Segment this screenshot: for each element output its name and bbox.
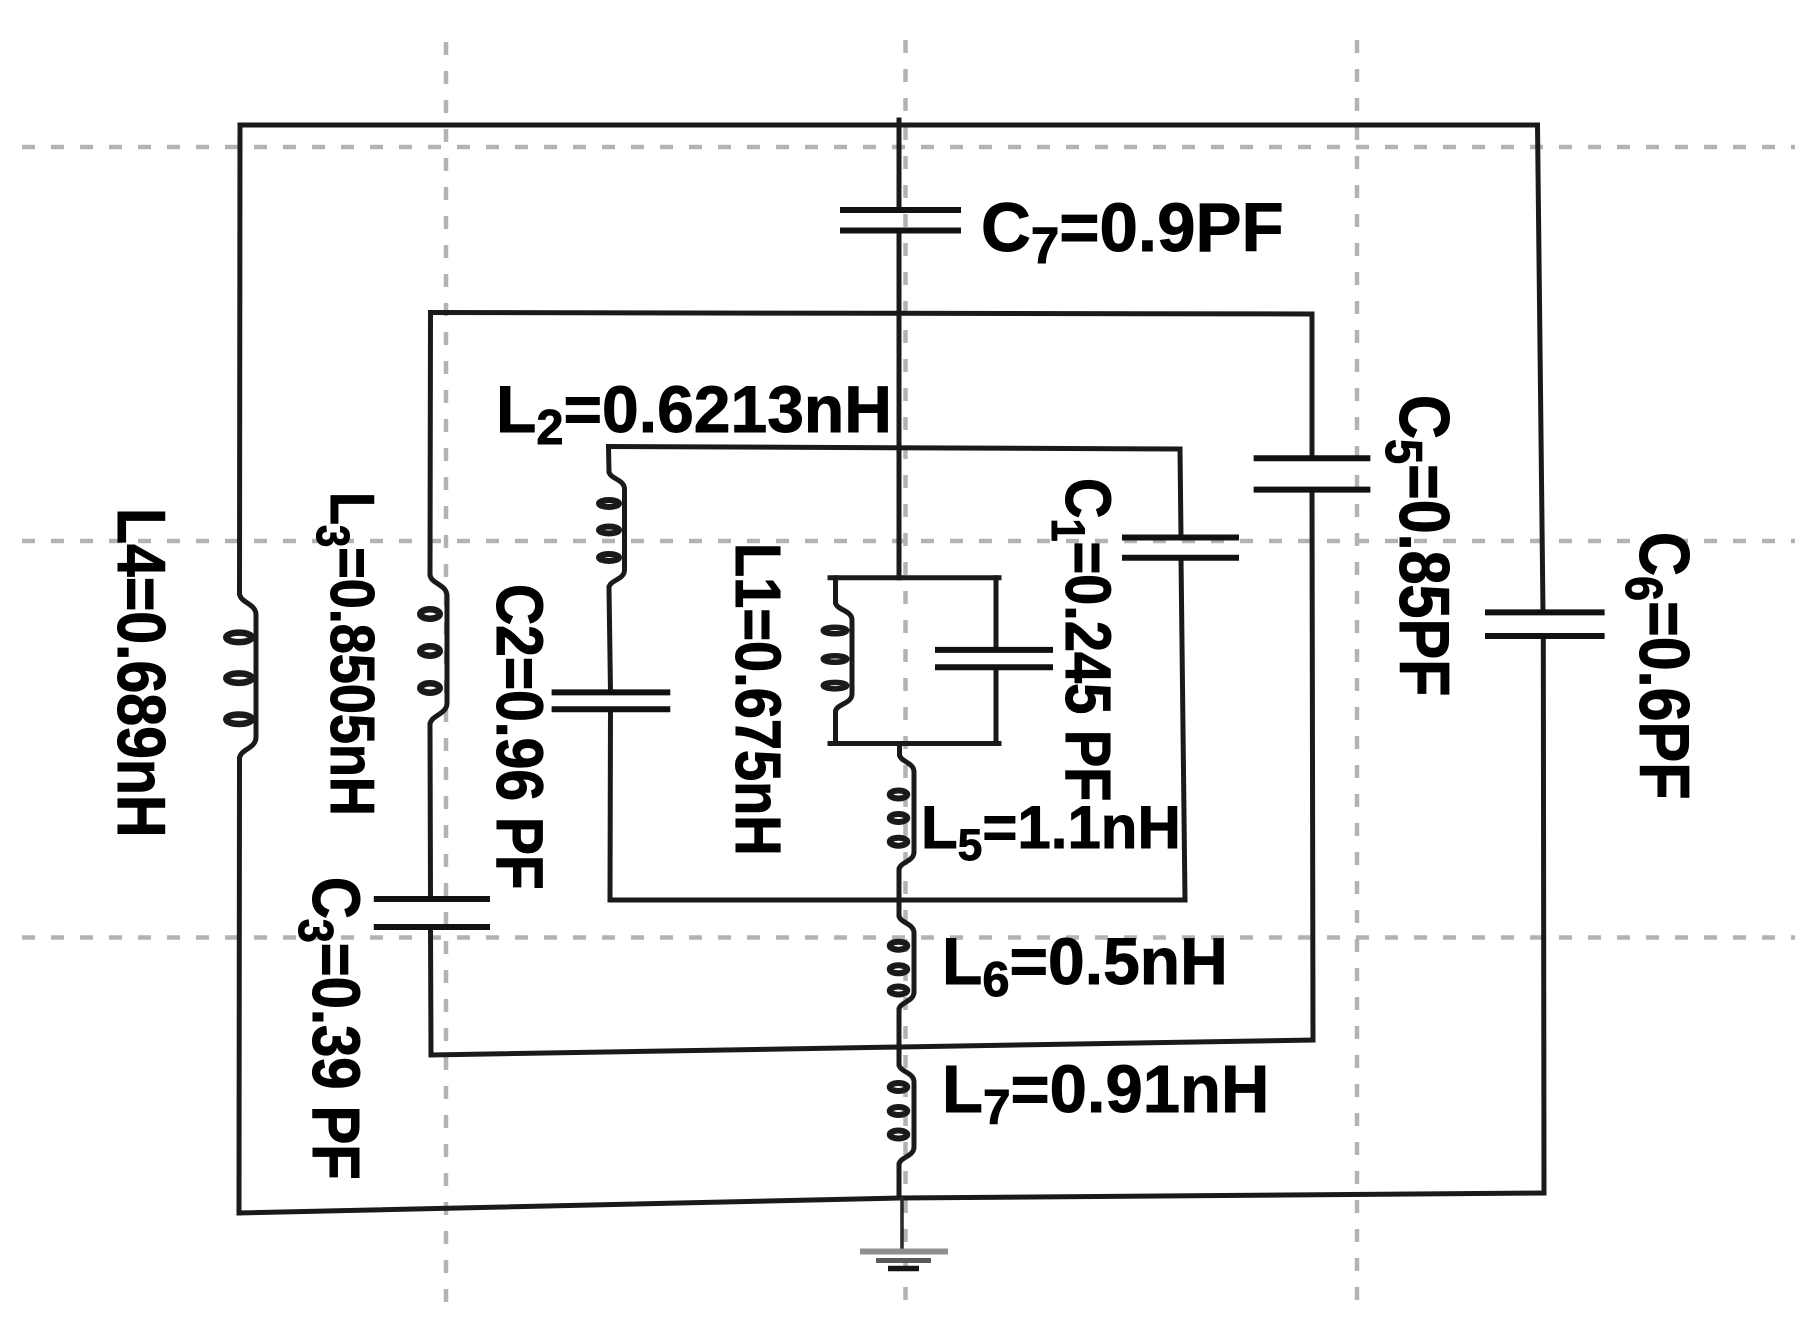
wire center between inner rect and L5 <box>897 744 902 755</box>
wire outer rect bottom <box>239 1193 1544 1213</box>
capacitor C7 <box>840 210 961 231</box>
wire L7 to outer bottom <box>897 1165 902 1197</box>
wire inner rect right <box>994 578 999 744</box>
wire second rect right <box>1312 314 1313 1040</box>
wire third rect right <box>1180 449 1185 900</box>
capacitor C6 <box>1485 612 1605 636</box>
wire third bottom to L6 <box>897 900 902 915</box>
wire second rect top <box>431 313 1313 315</box>
svg-text:C6=0.6PF: C6=0.6PF <box>1614 532 1704 799</box>
ground <box>860 1197 948 1269</box>
wire second rect left <box>430 313 431 1056</box>
inductor L5 <box>890 754 914 870</box>
inductor L4 <box>226 593 256 759</box>
wire outer rect left <box>239 125 240 1213</box>
capacitor C4 <box>1122 538 1239 558</box>
wire outer rect top <box>240 123 1538 128</box>
wire inner rect bottom <box>830 741 999 746</box>
svg-text:L1=0.675nH: L1=0.675nH <box>722 543 795 856</box>
wire inner rect left <box>833 578 838 744</box>
inductor L6 <box>890 915 914 1010</box>
capacitor C1 (0.245 PF) <box>935 650 1053 667</box>
wire inner rect top <box>830 575 999 580</box>
svg-text:L4=0.689nH: L4=0.689nH <box>103 508 179 838</box>
wire center vertical top <box>897 120 902 578</box>
inductor L3 <box>420 574 447 725</box>
svg-text:C2=0.96 PF: C2=0.96 PF <box>482 584 556 890</box>
wire outer rect right <box>1538 125 1545 1193</box>
wire third rect bottom <box>610 898 1185 903</box>
wire second rect bottom <box>431 1040 1313 1055</box>
capacitor C5 <box>1254 458 1371 489</box>
wire second bottom to L7 <box>897 1047 902 1064</box>
wire third rect left <box>609 447 611 901</box>
inductor L2 <box>599 471 625 588</box>
capacitor C2 <box>552 692 671 709</box>
svg-text:C7=0.9PF: C7=0.9PF <box>981 189 1284 274</box>
inductor L7 <box>890 1064 914 1165</box>
wire L6 to second bottom <box>897 1010 902 1047</box>
wire L5 to third bottom <box>897 870 902 900</box>
inductor L1 <box>823 602 852 712</box>
capacitor C3 <box>374 899 490 927</box>
wire third rect top <box>609 447 1181 450</box>
